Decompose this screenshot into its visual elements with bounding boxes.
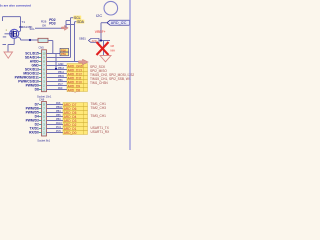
- svg-text:TIM2_CH3: TIM2_CH3: [91, 106, 107, 110]
- svg-text:PC5: PC5: [56, 130, 61, 133]
- svg-text:RX/D0: RX/D0: [29, 131, 39, 135]
- svg-text:PA8: PA8: [56, 102, 61, 105]
- svg-text:TIM3_CH1: TIM3_CH1: [91, 114, 107, 118]
- svg-text:SDA: SDA: [77, 20, 85, 24]
- svg-text:GND: GND: [58, 63, 64, 66]
- svg-text:I2C: I2C: [96, 13, 102, 18]
- svg-text:T1: T1: [22, 20, 26, 24]
- svg-text:CN5: CN5: [39, 45, 45, 49]
- svg-text:AVD: AVD: [92, 39, 97, 43]
- svg-text:USART1_RX: USART1_RX: [91, 130, 111, 134]
- svg-text:OK: OK: [42, 23, 46, 27]
- svg-text:D8: D8: [35, 88, 39, 92]
- svg-text:ARD_D8: ARD_D8: [68, 88, 81, 92]
- svg-text:PA10: PA10: [56, 122, 62, 125]
- svg-text:10: 10: [43, 52, 46, 56]
- svg-text:PB3: PB3: [56, 118, 61, 121]
- svg-text:PB10: PB10: [56, 106, 63, 109]
- svg-text:PB15: PB15: [58, 75, 65, 78]
- svg-text:PB14: PB14: [58, 71, 65, 74]
- svg-text:PC4: PC4: [56, 126, 61, 129]
- svg-text:PB8: PB8: [61, 48, 67, 52]
- svg-text:PA9: PA9: [58, 87, 63, 90]
- svg-text:PB5: PB5: [56, 114, 61, 117]
- svg-text:ARD_I2C: ARD_I2C: [111, 21, 127, 25]
- svg-text:Socket 8x1: Socket 8x1: [37, 138, 50, 142]
- svg-text:CN9: CN9: [39, 98, 45, 102]
- svg-text:PB4: PB4: [56, 110, 61, 113]
- svg-text:PB9: PB9: [61, 52, 67, 56]
- svg-text:C8: C8: [111, 44, 115, 48]
- svg-text:PC7: PC7: [58, 83, 63, 86]
- svg-text:1: 1: [6, 29, 8, 32]
- svg-text:TIM1_CH3N: TIM1_CH3N: [90, 81, 108, 85]
- svg-text:PD3: PD3: [49, 21, 56, 25]
- svg-text:SB51: SB51: [79, 37, 86, 41]
- svg-text:PB6: PB6: [58, 79, 63, 82]
- svg-text:PB13: PB13: [58, 67, 65, 70]
- svg-text:ARD_D0: ARD_D0: [64, 131, 77, 135]
- svg-text:SBs are also connected: SBs are also connected: [0, 4, 31, 8]
- svg-text:N/A: N/A: [111, 49, 116, 53]
- svg-text:VREF+: VREF+: [95, 30, 106, 34]
- svg-text:SCL: SCL: [30, 27, 36, 31]
